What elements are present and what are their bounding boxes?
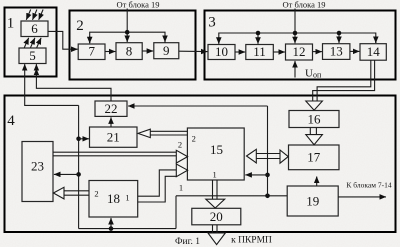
svg-text:2: 2 bbox=[178, 140, 182, 150]
svg-text:1: 1 bbox=[179, 183, 183, 193]
arrow 19 to blocks 7-14 bbox=[338, 196, 386, 198]
junction dot right of 15 bbox=[265, 173, 270, 178]
Uоп arrow into 12 bottom bbox=[294, 61, 296, 78]
bus arrowhead to ПКРМП bbox=[208, 233, 225, 245]
svg-text:22: 22 bbox=[105, 101, 118, 116]
bus arrowhead into 23 bbox=[53, 187, 64, 199]
block 12 bbox=[286, 44, 313, 60]
bus 15 to 21 lines bbox=[150, 131, 187, 135]
bus 20 to output lines bbox=[213, 225, 218, 233]
arrow into 14 top bbox=[375, 37, 377, 43]
block 17 bbox=[289, 145, 340, 170]
junction dot left of 19 bbox=[265, 194, 270, 199]
bus 14 to 16 inner line bbox=[317, 60, 371, 101]
block 10 bbox=[208, 44, 235, 60]
arrow into 7 top bbox=[89, 36, 91, 43]
net bottom wire bbox=[79, 228, 176, 230]
svg-text:8: 8 bbox=[126, 44, 133, 59]
block 6 bbox=[21, 21, 48, 37]
svg-text:1: 1 bbox=[212, 170, 216, 180]
svg-text:16: 16 bbox=[308, 112, 322, 127]
wire 10 to 11 bbox=[235, 51, 245, 53]
bus 14 to 16 outer line bbox=[313, 60, 375, 101]
block 1 outer frame bbox=[5, 8, 57, 77]
svg-text:12: 12 bbox=[293, 44, 306, 59]
svg-text:11: 11 bbox=[253, 44, 266, 59]
svg-text:К блокам 7-14: К блокам 7-14 bbox=[346, 181, 391, 190]
block 19 bbox=[287, 186, 338, 216]
block 3 outer frame bbox=[205, 11, 396, 80]
distribution wire in block 2 bbox=[90, 32, 165, 43]
wire 22 to block 5 bbox=[36, 69, 111, 101]
distribution wire in block 3 bbox=[219, 33, 376, 44]
arrows block 5 to block 6 bbox=[24, 38, 41, 48]
svg-text:2: 2 bbox=[192, 134, 196, 144]
wire 11 to 12 bbox=[273, 51, 285, 53]
arrow into 8 top bbox=[126, 34, 128, 42]
bus 15 to 20 lines bbox=[213, 180, 218, 199]
block 21 bbox=[90, 127, 138, 147]
wire net into 22 right bbox=[128, 105, 268, 107]
bus 23 to 15 lines bbox=[53, 152, 176, 156]
block 13 bbox=[323, 44, 350, 60]
bus arrowhead into 15 right bbox=[247, 149, 257, 163]
svg-text:13: 13 bbox=[330, 44, 343, 59]
svg-text:9: 9 bbox=[163, 43, 170, 58]
block 11 bbox=[246, 44, 273, 60]
block 8 bbox=[116, 43, 142, 60]
svg-text:Фиг. 1: Фиг. 1 bbox=[175, 237, 200, 247]
arrow into 11 top bbox=[257, 35, 259, 44]
arrow into 15 right bbox=[245, 174, 267, 176]
arrow 19 to 17 bbox=[316, 177, 318, 186]
block 9 bbox=[154, 43, 179, 59]
svg-text:1: 1 bbox=[125, 193, 129, 203]
block 2 outer frame bbox=[70, 11, 196, 80]
wire 7 to 8 bbox=[105, 51, 115, 53]
svg-text:17: 17 bbox=[307, 150, 321, 165]
svg-text:2: 2 bbox=[76, 18, 84, 34]
bus 18 to 15 inner line bbox=[138, 176, 177, 202]
svg-text:18: 18 bbox=[107, 191, 120, 206]
arrow tip into 5 left input bbox=[24, 64, 26, 69]
arrow 21 to 22 bbox=[110, 117, 112, 127]
block 7 bbox=[78, 44, 105, 60]
wire block 6 to block 7 bbox=[48, 31, 77, 49]
bus arrowhead into 16 top bbox=[306, 101, 323, 110]
arrow up into 18 bottom bbox=[110, 218, 112, 229]
bus 16 to 17 lines bbox=[310, 128, 316, 135]
svg-text:7: 7 bbox=[89, 44, 96, 59]
wire from От блока 19 into block 2 bbox=[126, 9, 128, 33]
junction dot above 12 bbox=[293, 31, 298, 36]
block 22 bbox=[95, 101, 127, 116]
arrow into 12 top bbox=[294, 35, 296, 43]
svg-text:20: 20 bbox=[210, 209, 223, 224]
arrow into 13 top bbox=[338, 35, 340, 43]
net vertical mid bbox=[175, 196, 177, 229]
svg-text:15: 15 bbox=[210, 142, 223, 157]
svg-text:6: 6 bbox=[31, 21, 38, 36]
bus arrowhead into 21 bbox=[138, 129, 150, 137]
wire 13 to 14 bbox=[350, 50, 359, 52]
svg-text:23: 23 bbox=[31, 159, 44, 174]
svg-text:14: 14 bbox=[367, 44, 381, 59]
block 14 bbox=[360, 44, 386, 61]
wire 8 to 9 bbox=[142, 50, 153, 52]
block 23 bbox=[22, 142, 53, 202]
wire 9 to 10 bbox=[179, 50, 208, 52]
svg-text:1: 1 bbox=[7, 16, 15, 32]
svg-text:21: 21 bbox=[107, 130, 120, 145]
junction dot above 11 bbox=[256, 31, 261, 36]
svg-text:2: 2 bbox=[94, 189, 98, 199]
svg-text:От блока 19: От блока 19 bbox=[117, 0, 160, 10]
input arrows into block 6 top bbox=[26, 10, 43, 20]
wire from От блока 19 into block 3 bbox=[294, 9, 296, 34]
bus 15 to 17 lines bbox=[256, 154, 281, 159]
junction dot at 21 branch bbox=[76, 137, 81, 142]
block 5 bbox=[19, 48, 46, 64]
svg-text:к ПКРМП: к ПКРМП bbox=[231, 236, 272, 246]
svg-text:19: 19 bbox=[306, 194, 319, 209]
junction dot above 13 bbox=[337, 31, 342, 36]
arrow tip into 5 right input bbox=[35, 64, 37, 69]
bus arrowhead into 20 top bbox=[206, 199, 225, 208]
junction dot at 23 branch bbox=[76, 172, 81, 177]
arrow into 23 right bbox=[54, 173, 79, 175]
net wire into 19 left bbox=[176, 195, 287, 197]
wire net to block 5 left input bbox=[25, 69, 79, 106]
bus 18 to 15 outer line bbox=[138, 170, 177, 196]
wire 12 to 13 bbox=[313, 51, 322, 53]
bus arrowhead into 17 left bbox=[280, 150, 288, 163]
svg-text:4: 4 bbox=[7, 113, 15, 129]
svg-text:10: 10 bbox=[215, 44, 228, 59]
svg-text:От блока 19: От блока 19 bbox=[283, 0, 326, 10]
net vertical right bbox=[267, 106, 269, 196]
bus arrowhead into 15 lower bbox=[176, 164, 187, 177]
junction dot above 8 bbox=[125, 30, 130, 35]
svg-text:5: 5 bbox=[29, 48, 36, 63]
block 4 outer frame bbox=[5, 96, 396, 233]
svg-text:3: 3 bbox=[208, 15, 216, 31]
block 16 bbox=[289, 111, 339, 128]
arrow into 9 top bbox=[164, 36, 166, 42]
block 20 bbox=[192, 208, 241, 225]
arrow into 21 left bbox=[79, 138, 89, 140]
arrow into 10 top bbox=[218, 37, 220, 44]
bus 18 to 23 lines bbox=[64, 191, 89, 195]
block 15 bbox=[187, 128, 244, 180]
junction dot below 18 bbox=[109, 226, 114, 231]
bus arrowhead into 15 upper bbox=[176, 150, 187, 163]
bus arrowhead into 17 top bbox=[306, 135, 323, 145]
block 18 bbox=[89, 181, 138, 218]
net vertical left bbox=[78, 105, 80, 228]
